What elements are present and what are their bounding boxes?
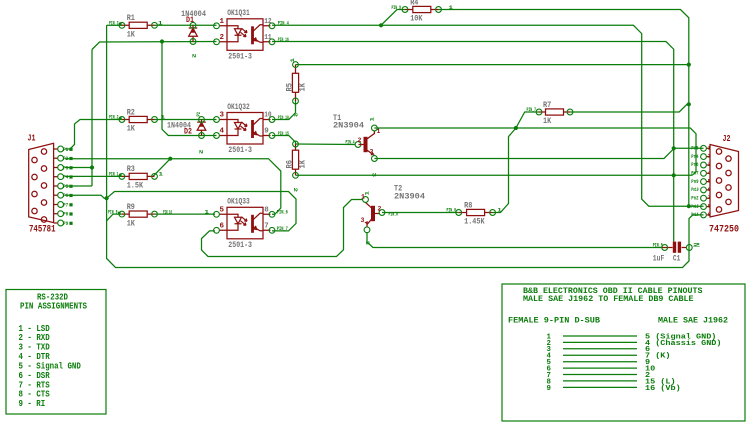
resistor R6 1K vertical bbox=[284, 141, 307, 178]
svg-text:3: 3 bbox=[370, 149, 374, 156]
resistor R1 1K bbox=[119, 13, 157, 39]
svg-text:PIN_4: PIN_4 bbox=[278, 21, 289, 27]
junction opto1 out / R4 branch bbox=[379, 23, 383, 27]
svg-text:2: 2 bbox=[197, 150, 203, 155]
resistor R5 1K vertical bbox=[284, 62, 307, 104]
node J2 pin 3 bbox=[707, 164, 711, 166]
svg-text:P8: P8 bbox=[63, 212, 68, 218]
wire R2 out through D2 to opto2 pin3 bbox=[155, 119, 217, 121]
svg-text:PIN_5: PIN_5 bbox=[653, 242, 663, 248]
info box RS-232 pin assignments bbox=[6, 290, 106, 415]
svg-text:5: 5 bbox=[708, 179, 711, 185]
svg-text:R6: R6 bbox=[284, 160, 294, 169]
connector J2 DB9 747250 bbox=[709, 134, 739, 236]
wire R4 out right, down x=688.8 bbox=[439, 10, 689, 207]
svg-text:6: 6 bbox=[708, 187, 711, 193]
svg-text:1K: 1K bbox=[298, 159, 308, 168]
svg-text:2: 2 bbox=[378, 206, 382, 213]
wire T1 collector down to R5 bottom net bbox=[374, 128, 696, 175]
svg-text:1: 1 bbox=[290, 58, 296, 63]
svg-text:P5: P5 bbox=[63, 184, 68, 190]
svg-text:2: 2 bbox=[292, 113, 298, 118]
wire opto2 pin9 to R5 top bbox=[272, 136, 296, 145]
wire opto2 pin10 to R6 bottom bbox=[272, 101, 296, 120]
wire T2 emitter down to C1 left bbox=[367, 232, 662, 248]
svg-text:PIN_9: PIN_9 bbox=[392, 5, 402, 11]
svg-text:PIN_7: PIN_7 bbox=[277, 226, 288, 232]
svg-text:4 (Chassis GND): 4 (Chassis GND) bbox=[645, 340, 722, 348]
svg-text:1: 1 bbox=[205, 209, 210, 215]
svg-text:16 (Vb): 16 (Vb) bbox=[645, 385, 681, 393]
svg-text:MALE SAE J1962: MALE SAE J1962 bbox=[658, 315, 728, 325]
wire J1 pin6 to junction bbox=[65, 195, 107, 198]
node J2 pin 9 bbox=[707, 214, 711, 216]
svg-text:1K: 1K bbox=[298, 82, 308, 91]
wire R8 left to T2 base bbox=[382, 212, 459, 214]
svg-text:2: 2 bbox=[708, 154, 711, 160]
svg-text:FEMALE 9-PIN D-SUB: FEMALE 9-PIN D-SUB bbox=[508, 315, 600, 325]
svg-text:1K: 1K bbox=[127, 124, 136, 134]
wire R3 out diag to row2 net bbox=[153, 159, 170, 177]
wire to D1 bottom / opto1 pin2 bbox=[92, 42, 217, 50]
wire opto1 pin11 out down to C1 left bbox=[272, 42, 674, 242]
junction R3 branch bbox=[168, 157, 172, 161]
node J2 pin 5 bbox=[707, 181, 711, 183]
svg-text:P2: P2 bbox=[196, 112, 202, 117]
svg-text:1: 1 bbox=[449, 5, 454, 11]
wire V3 x=162 to D2 bottom / opto2 pin4 bbox=[162, 42, 217, 136]
wire opto3 pin6 to T2 collector bbox=[202, 200, 363, 257]
svg-text:1: 1 bbox=[158, 21, 163, 27]
svg-text:1uF: 1uF bbox=[653, 253, 665, 263]
svg-text:Pn6: Pn6 bbox=[691, 162, 698, 168]
svg-text:1: 1 bbox=[159, 172, 164, 178]
svg-text:2: 2 bbox=[191, 54, 197, 59]
svg-text:8: 8 bbox=[708, 204, 711, 210]
node J2 pin 7 bbox=[707, 197, 711, 199]
wire J1 pin2 net down to opto3 pin8 bbox=[65, 159, 281, 215]
capacitor C1 1uF bbox=[653, 242, 692, 264]
svg-text:1: 1 bbox=[377, 128, 381, 135]
wire V2 top to R1 bbox=[107, 24, 122, 26]
svg-text:P7: P7 bbox=[63, 202, 68, 208]
svg-text:C1: C1 bbox=[673, 253, 681, 263]
wire R1 out through D1 to opto1 pin1 bbox=[155, 24, 217, 26]
wire opto1 pin12 out to J2 row8 bbox=[272, 25, 704, 206]
svg-text:PIN_10: PIN_10 bbox=[278, 115, 289, 121]
junction to V3 bbox=[160, 39, 164, 43]
svg-text:3: 3 bbox=[708, 162, 711, 168]
wire R9 left down to V2 bbox=[107, 214, 122, 221]
svg-text:1: 1 bbox=[364, 191, 370, 196]
svg-text:1K: 1K bbox=[127, 30, 136, 40]
svg-text:P2: P2 bbox=[63, 156, 68, 162]
junction V1 / J1 row3 bbox=[90, 165, 94, 169]
svg-text:PIN ASSIGNMENTS: PIN ASSIGNMENTS bbox=[20, 300, 87, 311]
svg-text:PIN_8: PIN_8 bbox=[389, 211, 399, 217]
svg-text:2N3904: 2N3904 bbox=[394, 191, 425, 201]
junction x673 / R5 bottom net bbox=[672, 173, 676, 177]
svg-text:10K: 10K bbox=[410, 14, 423, 24]
wire J1 pin1 up to R2 left bbox=[65, 120, 122, 150]
svg-text:Pn15: Pn15 bbox=[691, 204, 698, 210]
svg-text:3: 3 bbox=[371, 173, 377, 178]
svg-text:4: 4 bbox=[708, 170, 711, 176]
svg-text:P3: P3 bbox=[63, 165, 68, 171]
diode D2 1N4004 bbox=[184, 117, 206, 139]
svg-text:3: 3 bbox=[361, 217, 365, 224]
wire J1 pin5 to V1 bbox=[65, 185, 92, 187]
optocoupler OK1Q31 2501-3 bbox=[214, 8, 275, 61]
node J1 pin 3 bbox=[54, 167, 58, 169]
svg-text:1.5K: 1.5K bbox=[127, 181, 144, 191]
junction x673 / J2 row1 net bbox=[672, 146, 676, 150]
svg-text:747250: 747250 bbox=[709, 224, 739, 235]
svg-text:8 - CTS: 8 - CTS bbox=[19, 390, 51, 400]
svg-text:1: 1 bbox=[498, 207, 502, 213]
node J1 pin 1 bbox=[54, 148, 58, 150]
svg-text:2N3904: 2N3904 bbox=[333, 121, 364, 131]
node J1 pin 2 bbox=[54, 157, 58, 159]
node J1 pin 7 bbox=[54, 204, 58, 206]
svg-text:3 - TXD: 3 - TXD bbox=[19, 343, 51, 353]
wire junction down to R8 right bbox=[493, 128, 516, 213]
svg-text:R2: R2 bbox=[127, 107, 135, 117]
wire T1 emitter to J2 row1 bbox=[374, 148, 703, 158]
svg-text:J2: J2 bbox=[723, 134, 731, 144]
svg-text:OK1Q31: OK1Q31 bbox=[227, 8, 250, 18]
wire J1 pin4 to R3 bbox=[65, 175, 122, 177]
svg-text:3: 3 bbox=[364, 241, 370, 246]
svg-text:12: 12 bbox=[264, 18, 272, 26]
node J2 pin 1 bbox=[707, 147, 711, 149]
svg-text:2: 2 bbox=[358, 137, 362, 144]
svg-text:J1: J1 bbox=[28, 134, 36, 144]
node J1 pin 8 bbox=[54, 213, 58, 215]
svg-text:9: 9 bbox=[708, 212, 711, 218]
svg-text:PIN_6: PIN_6 bbox=[277, 210, 288, 216]
svg-text:6: 6 bbox=[220, 223, 225, 231]
svg-text:11: 11 bbox=[264, 34, 272, 42]
svg-text:P4: P4 bbox=[63, 175, 68, 181]
svg-text:Pn7: Pn7 bbox=[691, 171, 698, 177]
svg-text:1: 1 bbox=[708, 145, 711, 151]
wire R7 right to x688 bbox=[570, 104, 689, 112]
node J2 pin 4 bbox=[707, 172, 711, 174]
node J1 pin 6 bbox=[54, 194, 58, 196]
wire junction to R7 left bbox=[516, 112, 539, 128]
wire R5 bottom net to T1 collector hook bbox=[296, 174, 693, 176]
svg-text:PIN_2: PIN_2 bbox=[109, 115, 119, 121]
optocoupler OK1Q33 2501-3 bbox=[214, 197, 275, 250]
svg-text:R8: R8 bbox=[464, 200, 472, 210]
svg-text:5: 5 bbox=[220, 207, 225, 215]
info box cable pinouts bbox=[502, 284, 745, 421]
pin T1 base bbox=[355, 142, 361, 148]
svg-text:P6: P6 bbox=[63, 193, 68, 199]
svg-text:P9: P9 bbox=[63, 221, 68, 227]
svg-text:R9: R9 bbox=[127, 202, 135, 212]
transistor T1 2N3904 bbox=[333, 113, 377, 161]
transistor T2 2N3904 bbox=[363, 184, 425, 233]
wire J1 pin3 to V1 bbox=[65, 167, 92, 169]
svg-text:Pn10: Pn10 bbox=[691, 187, 698, 193]
node J2 pin 2 bbox=[707, 156, 711, 158]
node J2 pin 6 bbox=[707, 189, 711, 191]
svg-text:R4: R4 bbox=[410, 0, 418, 7]
wire V1 x=92 down to J1 row5 bbox=[91, 50, 93, 187]
wire R9 out to opto3 pin5 bbox=[155, 213, 216, 215]
svg-text:7: 7 bbox=[264, 223, 269, 231]
svg-text:Pn4: Pn4 bbox=[691, 154, 698, 160]
svg-text:9 - RI: 9 - RI bbox=[19, 399, 46, 409]
svg-text:PIN_1: PIN_1 bbox=[109, 172, 119, 178]
svg-text:1N4004: 1N4004 bbox=[167, 120, 191, 130]
svg-text:745781: 745781 bbox=[29, 224, 56, 235]
junction x688 / J2 row8 net bbox=[687, 204, 691, 208]
junction x688 / R7 net bbox=[687, 102, 691, 106]
wire R6 top to x688 bbox=[296, 64, 689, 66]
svg-text:PIN_15: PIN_15 bbox=[278, 131, 289, 137]
junction x688 / R6 net bbox=[687, 63, 691, 67]
svg-text:2501-3: 2501-3 bbox=[228, 240, 252, 250]
node J1 pin 9 bbox=[54, 222, 58, 224]
svg-text:1K: 1K bbox=[543, 116, 552, 126]
svg-text:1: 1 bbox=[220, 18, 225, 26]
svg-text:R7: R7 bbox=[543, 100, 551, 110]
node J2 pin 8 bbox=[707, 206, 711, 208]
resistor R3 1.5K bbox=[119, 164, 157, 190]
node J1 pin 5 bbox=[54, 185, 58, 187]
svg-text:R5: R5 bbox=[284, 83, 294, 92]
svg-text:1: 1 bbox=[361, 194, 365, 201]
junction V2 to J1 pin6 net bbox=[105, 196, 109, 200]
junction T1 collector / R7 / R8 bbox=[514, 126, 518, 130]
svg-text:2501-3: 2501-3 bbox=[228, 145, 252, 155]
svg-text:PIN_16: PIN_16 bbox=[163, 209, 172, 215]
diode D1 1N4004 bbox=[186, 16, 197, 45]
svg-text:1.45K: 1.45K bbox=[464, 217, 485, 227]
svg-text:PIN_3: PIN_3 bbox=[109, 21, 119, 27]
svg-text:PIN_4: PIN_4 bbox=[346, 139, 355, 145]
svg-text:R3: R3 bbox=[127, 164, 135, 174]
resistor R4 10K bbox=[402, 0, 441, 24]
svg-text:R1: R1 bbox=[127, 13, 135, 23]
svg-text:9: 9 bbox=[264, 128, 269, 136]
wire R6 top wire... to T1 base bbox=[296, 143, 356, 146]
svg-text:4: 4 bbox=[220, 128, 225, 136]
resistor R9 1K bbox=[119, 202, 157, 228]
svg-text:10: 10 bbox=[264, 112, 272, 120]
svg-text:1K: 1K bbox=[127, 218, 136, 228]
svg-text:2: 2 bbox=[693, 242, 701, 248]
svg-text:9: 9 bbox=[547, 385, 551, 393]
svg-text:3: 3 bbox=[220, 112, 225, 120]
resistor R7 1K bbox=[536, 100, 573, 126]
svg-text:OK1Q33: OK1Q33 bbox=[227, 197, 250, 207]
svg-text:Pn16: Pn16 bbox=[691, 212, 698, 218]
svg-text:PIN_8: PIN_8 bbox=[447, 207, 457, 213]
svg-text:P1: P1 bbox=[63, 147, 68, 153]
resistor R2 1K bbox=[119, 107, 157, 133]
connector J1 DB9 745781 bbox=[28, 134, 56, 236]
resistor R8 1.45K bbox=[456, 200, 496, 226]
svg-text:MALE SAE J1962 TO FEMALE DB9 C: MALE SAE J1962 TO FEMALE DB9 CABLE bbox=[523, 294, 694, 304]
svg-text:PIN_16: PIN_16 bbox=[278, 37, 289, 43]
wire diag to R4 left bbox=[381, 10, 405, 26]
wire to opto3 pin7 bbox=[107, 192, 296, 231]
svg-text:2501-3: 2501-3 bbox=[228, 51, 252, 61]
svg-text:1N4004: 1N4004 bbox=[181, 9, 206, 19]
svg-text:7: 7 bbox=[708, 195, 711, 201]
svg-text:Pn9: Pn9 bbox=[691, 179, 698, 185]
optocoupler OK1Q32 2501-3 bbox=[214, 102, 275, 155]
svg-text:1: 1 bbox=[369, 117, 375, 122]
svg-text:OK1Q32: OK1Q32 bbox=[227, 102, 250, 112]
svg-text:8: 8 bbox=[264, 207, 269, 215]
svg-text:Pn5: Pn5 bbox=[691, 146, 698, 152]
wire left bus V2 / bottom ground bus / J2 pin9 riser bbox=[107, 25, 704, 267]
svg-text:2: 2 bbox=[220, 34, 225, 42]
svg-text:2: 2 bbox=[292, 188, 298, 193]
pin T2 base bbox=[379, 210, 385, 216]
svg-text:PIN_7: PIN_7 bbox=[527, 107, 537, 113]
node J1 pin 4 bbox=[54, 176, 58, 178]
svg-text:PIN_9: PIN_9 bbox=[108, 209, 118, 215]
svg-text:1: 1 bbox=[161, 115, 166, 121]
svg-text:Pn2: Pn2 bbox=[691, 195, 698, 201]
